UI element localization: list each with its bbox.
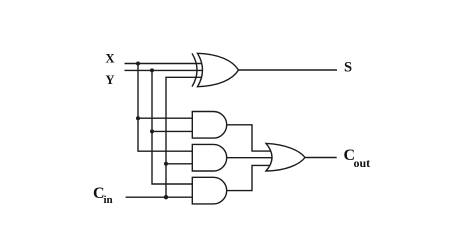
svg-text:S: S <box>344 60 352 76</box>
svg-text:Y: Y <box>106 73 115 87</box>
svg-text:X: X <box>106 52 115 66</box>
svg-text:in: in <box>104 194 113 206</box>
svg-text:out: out <box>354 156 371 170</box>
